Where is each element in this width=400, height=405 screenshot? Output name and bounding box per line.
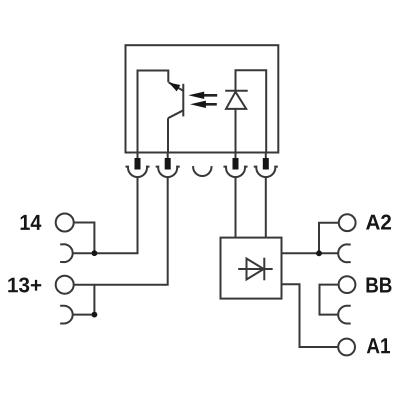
wire: [282, 252, 338, 254]
plug pin 4: [233, 153, 239, 170]
label A1: [367, 338, 390, 353]
light arrow 2: [190, 101, 217, 108]
plug contact under 14: [60, 244, 73, 262]
junction: [316, 250, 322, 256]
rectifier box: [221, 238, 282, 299]
optocoupler box: [126, 45, 279, 152]
wire: [265, 177, 267, 237]
wire: [74, 177, 168, 285]
junction: [92, 250, 98, 256]
plug pin 1: [135, 153, 141, 170]
wire: [235, 177, 237, 237]
label A2: [366, 215, 391, 230]
plug contact under A2: [338, 244, 351, 262]
wire: [138, 71, 169, 153]
wire: [236, 70, 267, 152]
wire: [282, 284, 338, 347]
plug pin 5: [263, 153, 269, 170]
plug contact under BB: [338, 306, 351, 324]
socket 2: [156, 167, 180, 177]
socket 1: [125, 167, 149, 177]
terminal circle BB: [339, 276, 356, 293]
diode D2: [238, 258, 273, 281]
terminal circle 13+: [56, 276, 74, 294]
wire: [167, 118, 169, 152]
label 14: [21, 215, 42, 230]
wire: [73, 177, 138, 253]
terminal circle A1: [338, 339, 355, 356]
wire: [320, 285, 338, 315]
label 13+: [8, 278, 41, 293]
label BB: [367, 278, 392, 293]
socket 4: [223, 167, 247, 177]
phototransistor Q1: [168, 82, 183, 118]
wire: [74, 223, 95, 254]
junction: [92, 312, 98, 318]
light arrow 1: [188, 92, 217, 99]
wire: [73, 285, 95, 315]
plug contact under 13+: [60, 306, 73, 324]
plug pin 2: [165, 153, 171, 170]
LED D1: [225, 91, 248, 109]
socket 3 empty: [193, 166, 211, 176]
wire: [235, 109, 237, 153]
terminal circle A2: [339, 214, 356, 231]
wire: [319, 223, 338, 254]
socket 5: [254, 167, 278, 177]
terminal circle 14: [56, 214, 74, 232]
